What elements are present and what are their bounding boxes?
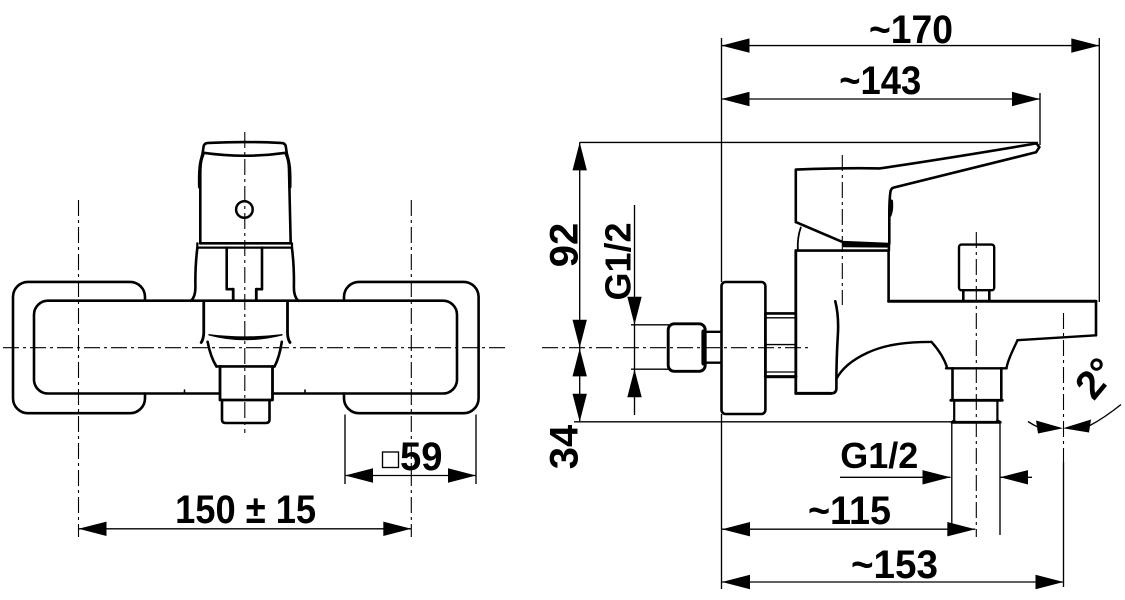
outlet flange line	[946, 367, 1007, 369]
arrow 153 right	[1036, 575, 1064, 589]
label sq59 square	[383, 452, 399, 468]
aerator	[222, 400, 270, 423]
right wall flange	[344, 282, 479, 413]
nipple thread lines	[765, 318, 795, 372]
neck rectangle	[227, 248, 262, 290]
arrow 150 right	[383, 522, 411, 536]
arrow sq59 right	[448, 468, 476, 482]
knob feet	[963, 290, 989, 300]
svg-text:150 ± 15: 150 ± 15	[175, 488, 316, 532]
body seam tick right	[304, 390, 306, 394]
handle knob	[203, 142, 287, 153]
body right edge upper	[887, 244, 890, 301]
arrow 143 right	[1012, 92, 1040, 106]
svg-text:~143: ~143	[839, 59, 921, 103]
svg-text:G1/2: G1/2	[840, 435, 918, 476]
dim line 92/34 vertical	[579, 142, 581, 421]
arrow G12 bottom left	[923, 470, 951, 484]
ext line 170 right	[1098, 38, 1100, 302]
inlet hex nut	[668, 324, 705, 372]
arrow G12 left top	[627, 297, 641, 325]
svg-text:~115: ~115	[808, 489, 891, 533]
handle dot	[236, 201, 253, 218]
escutcheon	[722, 282, 766, 414]
2deg arrow left	[1036, 421, 1063, 434]
ext lines G12 left	[631, 325, 669, 369]
centerline left flange	[78, 200, 80, 537]
left wall flange	[13, 282, 145, 413]
dim line 115	[722, 528, 975, 530]
arrow sq59 left	[345, 468, 373, 482]
body left edge	[794, 251, 797, 394]
body seam tick left	[184, 390, 186, 394]
cartridge cover left side	[191, 248, 198, 301]
handle skirt	[197, 243, 292, 247]
body bottom	[796, 392, 831, 395]
centerline 2deg reference	[1063, 313, 1065, 462]
arrow G12 left bottom	[627, 369, 641, 397]
neck lower stem	[233, 289, 256, 300]
svg-text:~153: ~153	[851, 543, 938, 587]
inlet hex shadow edge	[701, 332, 705, 364]
dim line sq59	[345, 475, 476, 477]
outlet hump right shoulder	[1006, 340, 1017, 368]
arrow 143 left	[722, 92, 750, 106]
centerline horizontal	[3, 347, 505, 349]
arrow 153 left	[722, 575, 750, 589]
arrow 115 left	[722, 522, 750, 536]
arrow 170 right	[1071, 38, 1099, 52]
deck top	[889, 300, 1096, 303]
svg-text:59: 59	[400, 435, 443, 479]
svg-text:92: 92	[543, 223, 587, 268]
spout taper	[208, 342, 282, 367]
2deg arc left tail	[1028, 422, 1038, 428]
dim line 143	[722, 98, 1041, 100]
arrow 92 bottom	[573, 320, 587, 348]
G12 bottom leader	[840, 476, 1032, 478]
arrow 34 bottom	[573, 394, 587, 422]
arrow 115 right	[947, 522, 975, 536]
ext line wall vertical	[721, 38, 723, 589]
handle shoulder wedge left	[199, 155, 203, 188]
G12 left dim vertical	[634, 205, 636, 415]
centerline outlet axis	[975, 232, 977, 537]
svg-text:G1/2: G1/2	[598, 223, 639, 301]
diverter knob	[959, 245, 994, 291]
spout concave underside	[836, 342, 931, 379]
lever left crescent	[798, 228, 801, 250]
dim line 153	[722, 581, 1064, 583]
arrow 34 top	[573, 348, 587, 376]
outlet aerator	[954, 400, 997, 421]
lever bottom skirt band	[841, 241, 889, 248]
lever handle	[796, 143, 1040, 243]
centerline right flange	[410, 200, 412, 537]
arrow 170 left	[722, 38, 750, 52]
outlet aerator bottom	[952, 421, 1000, 423]
2deg arc right tail	[1089, 405, 1121, 427]
dim line 150	[79, 528, 412, 530]
spout housing sides	[201, 302, 290, 343]
body bar	[34, 301, 457, 394]
cartridge cover right side	[292, 248, 299, 301]
centerline vertical center	[244, 132, 246, 433]
deck right edge	[1095, 301, 1098, 335]
ext lines sq59	[345, 415, 476, 485]
ext line lever top	[580, 141, 1038, 143]
spout tip	[220, 366, 273, 400]
ext line 153 right	[1063, 462, 1065, 587]
deck underside	[1018, 335, 1097, 340]
svg-text:34: 34	[543, 424, 587, 469]
ext line outlet bottom level	[574, 421, 952, 423]
spout step line	[216, 365, 274, 368]
nipple bottom thick	[765, 375, 795, 378]
spout collar shadow arc	[209, 335, 282, 340]
outlet step	[951, 399, 1003, 402]
centerline horizontal right view	[542, 347, 812, 349]
dim line 170	[722, 45, 1100, 47]
lever chamfer	[796, 222, 841, 241]
handle bottom line	[200, 242, 291, 245]
centerline cartridge axis	[841, 155, 843, 305]
wall nipple	[765, 313, 795, 376]
handle shoulder wedge right	[286, 155, 290, 188]
arrow 92 top	[573, 142, 587, 170]
arrow G12 bottom right	[1000, 470, 1028, 484]
2deg arrow right	[1063, 420, 1091, 433]
ext lines outlet G12	[952, 423, 1000, 536]
ext line 143 right	[1039, 93, 1041, 145]
cover top line	[796, 249, 889, 252]
inlet pipe	[705, 332, 721, 363]
outlet pipe	[953, 368, 1002, 399]
lever front hook	[890, 201, 892, 216]
arrow 150 left	[79, 522, 107, 536]
body front face below deck	[831, 301, 838, 393]
outlet hump left shoulder	[932, 342, 948, 368]
svg-text:~170: ~170	[869, 8, 953, 52]
